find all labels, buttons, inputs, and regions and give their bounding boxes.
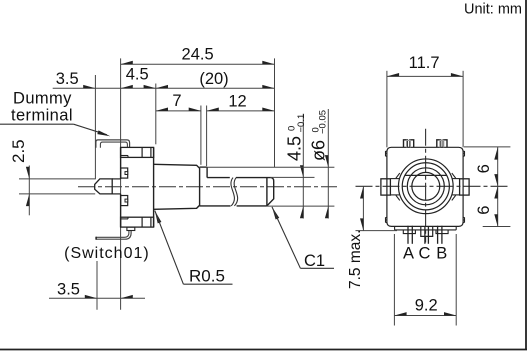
corner ears	[386, 151, 387, 157]
label R0.5	[153, 210, 161, 224]
side mounting tab	[95, 179, 113, 194]
svg-text:C: C	[419, 245, 431, 263]
shaft flat step	[206, 167, 208, 178]
bottom pins B	[437, 226, 439, 244]
terminal hook lower	[121, 196, 128, 206]
bottom mounting block	[121, 217, 154, 227]
front body outline	[387, 147, 463, 226]
bottom pins A	[407, 226, 409, 244]
svg-text:12: 12	[228, 92, 246, 110]
shaft flat line	[207, 177, 230, 179]
shaft bottom line	[200, 205, 231, 207]
svg-text:3.5: 3.5	[56, 70, 79, 88]
extension line 12 left	[206, 106, 208, 167]
shaft break line	[231, 178, 234, 206]
svg-text:7.5 max.: 7.5 max.	[347, 230, 364, 289]
extension line (20)/7 left	[155, 84, 157, 145]
tab hidden lines	[112, 178, 120, 180]
svg-text:(20): (20)	[199, 70, 228, 88]
svg-text:terminal: terminal	[11, 107, 73, 125]
shaft flat chord	[405, 174, 447, 176]
svg-text:Unit: mm: Unit: mm	[464, 2, 522, 18]
svg-text:6: 6	[475, 206, 493, 215]
dimension 2.5	[19, 178, 95, 180]
svg-text:B: B	[436, 245, 447, 263]
dummy terminal	[96, 140, 130, 148]
svg-text:7: 7	[172, 92, 181, 110]
dimension 6 / 6 right	[464, 146, 510, 148]
extension line top 3.5 left	[94, 75, 96, 179]
switch terminal	[96, 230, 131, 239]
dimension row 3.5 / 4.5 / (20)	[53, 87, 275, 89]
svg-text:11.7: 11.7	[409, 54, 440, 72]
centerline side view	[78, 186, 337, 188]
dimension 7.5 max	[356, 230, 398, 232]
dimension 24.5	[121, 63, 275, 65]
frame border bottom	[0, 349, 527, 351]
label C1	[270, 206, 279, 219]
svg-text:4.5: 4.5	[126, 66, 149, 84]
svg-text:9.2: 9.2	[415, 297, 438, 315]
extension line 24.5/(20)/12 right	[274, 58, 276, 167]
svg-text:6: 6	[475, 164, 493, 173]
svg-text:4.5: 4.5	[284, 136, 304, 161]
svg-text:Dummy: Dummy	[13, 90, 72, 108]
svg-text:−0.05: −0.05	[317, 110, 328, 134]
vertical centerline front	[425, 129, 427, 243]
pin A anchor	[403, 230, 415, 234]
body left face / extension line column	[120, 58, 122, 309]
bushing	[154, 164, 200, 209]
svg-text:2.5: 2.5	[9, 139, 28, 163]
dimension 11.7	[387, 75, 463, 77]
dimension 7 / 12	[156, 110, 201, 112]
bottom pin C with bracket	[421, 227, 433, 237]
horizontal centerline front	[356, 185, 511, 187]
switch terminal anchor tab	[127, 227, 135, 230]
dimension 9.2	[393, 234, 395, 326]
svg-text:R0.5: R0.5	[189, 267, 225, 286]
pin B anchor	[436, 230, 448, 234]
svg-text:(Switch01): (Switch01)	[64, 245, 150, 262]
dimension dia 6 shaft	[200, 166, 335, 168]
concentric circles	[398, 159, 453, 214]
frame border right	[525, 0, 527, 350]
side tab right front	[460, 179, 470, 195]
body right face	[153, 147, 155, 227]
svg-text:A: A	[403, 245, 414, 263]
bottom skirt	[394, 226, 396, 230]
svg-text:ø6: ø6	[309, 140, 329, 161]
side tab left front	[381, 179, 391, 195]
svg-text:C1: C1	[304, 252, 325, 270]
shaft tip with chamfer C1	[267, 178, 274, 206]
terminal hook upper	[121, 168, 128, 178]
dimension 3.5 bottom	[96, 261, 98, 310]
svg-text:3.5: 3.5	[57, 280, 80, 298]
top terminals	[404, 140, 408, 147]
extension line 7 right	[200, 106, 202, 165]
svg-text:24.5: 24.5	[182, 45, 214, 63]
shaft neck top	[200, 166, 208, 168]
svg-text:−0.1: −0.1	[296, 114, 307, 133]
top mounting block	[121, 147, 154, 157]
dimension 4.5 shaft (flat)	[271, 176, 315, 178]
